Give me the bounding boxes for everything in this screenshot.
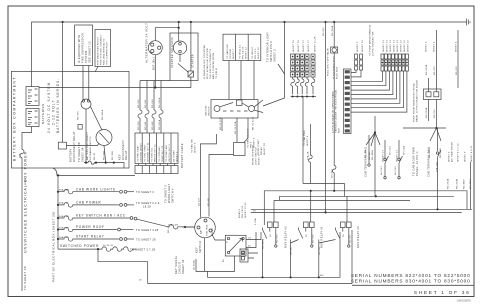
svg-text:STARTER SOLENOID: STARTER SOLENOID (170, 37, 174, 68)
svg-text:SHEET 2: SHEET 2 (259, 154, 261, 165)
label TO WD4-0 PIN C1-5 SHEET 22 (252, 46, 260, 59)
svg-text:TO PIN B.: TO PIN B. (216, 67, 218, 79)
svg-text:SWITCH PIN 9: SWITCH PIN 9 (269, 41, 273, 62)
svg-text:SHEET 4,5,7,10: SHEET 4,5,7,10 (458, 143, 460, 162)
svg-text:SHEET 1 OF 36: SHEET 1 OF 36 (414, 290, 471, 296)
svg-text:RD 30A: RD 30A (103, 151, 106, 160)
svg-text:WORK LIGHT: WORK LIGHT (167, 183, 171, 203)
svg-text:LB 107: LB 107 (198, 197, 200, 206)
label FROM START RELAY SHEET 28 (257, 139, 266, 155)
svg-text:TO ENG OIL: TO ENG OIL (152, 147, 154, 162)
wire relay right stubs (246, 232, 261, 248)
svg-text:TO FAN SW: TO FAN SW (191, 138, 194, 153)
svg-text:SWITCH: SWITCH (198, 241, 202, 253)
label KEY DISCONNECT RELAY (118, 140, 129, 160)
svg-text:UNSWITCHED ELECTRICAL BOX POWE: UNSWITCHED ELECTRICAL BOX POWER (24, 151, 28, 253)
node rail196 dot (375, 195, 377, 197)
svg-text:RD 401: RD 401 (208, 197, 210, 206)
svg-text:SHEET 6: SHEET 6 (426, 41, 428, 52)
svg-text:SHEET 34: SHEET 34 (181, 259, 185, 274)
label TO FAN SW SHEET 5 (191, 138, 197, 153)
terminal stubs cab rail (234, 143, 246, 156)
svg-text:DE START: DE START (172, 149, 175, 162)
svg-text:TO CAB ROOF PWR: TO CAB ROOF PWR (412, 147, 416, 176)
svg-text:10A-22B: 10A-22B (436, 162, 439, 172)
relay neutral start (225, 235, 246, 256)
wire alternator output down (154, 55, 156, 88)
wire breaker collector (291, 97, 316, 184)
svg-text:KEY SWITCH RUN / ACC: KEY SWITCH RUN / ACC (76, 214, 126, 218)
wire relay to switch diagonal (91, 107, 103, 131)
svg-text:SHEET 27: SHEET 27 (303, 40, 305, 52)
svg-text:LB 364A: LB 364A (193, 260, 196, 270)
label BATTERY DISCONNECT LOCKABLE SWITCH (86, 131, 92, 160)
svg-text:NH-016: NH-016 (332, 169, 334, 178)
svg-text:TO WCA-3-1: TO WCA-3-1 (239, 44, 242, 59)
wire long rail y196 (280, 195, 454, 197)
svg-text:SHEET 26: SHEET 26 (298, 40, 300, 52)
label FROM INTERIOR LIGHT SWITCH SHEET 2 (253, 145, 261, 165)
label vacuum wire tags (220, 116, 255, 134)
svg-text:BOX: BOX (339, 127, 341, 133)
svg-text:SHEET 12: SHEET 12 (404, 40, 406, 52)
label TO WCA-3-1 PIN CD-26 SHEET 22 (239, 44, 248, 59)
label KEY SWITCH (195, 241, 203, 253)
svg-text:NH-013: NH-013 (381, 166, 383, 175)
label terminal tags (94, 151, 114, 160)
vacuum switch box (211, 100, 258, 119)
svg-text:RELAY: RELAY (260, 147, 263, 155)
svg-text:SHEET 2: SHEET 2 (176, 151, 178, 162)
circuit row KEY SWITCH RUN ACC (58, 214, 195, 229)
svg-text:TO FAN SWITCH: TO FAN SWITCH (247, 128, 250, 148)
svg-text:RD 263: RD 263 (456, 66, 458, 75)
svg-text:CIRCUIT: CIRCUIT (178, 261, 182, 274)
svg-text:12 PIN BUSBAR ON UPPER FRAME: 12 PIN BUSBAR ON UPPER FRAME (332, 90, 335, 133)
svg-text:TO HYD TEMP: TO HYD TEMP (145, 145, 147, 162)
relay RUN RELAY 3 (319, 196, 352, 277)
fuse box battery relay (78, 125, 82, 130)
svg-text:BATTERIES IN SERIES.: BATTERIES IN SERIES. (56, 78, 60, 133)
label TO INTERIOR LIGHT SWITCH PIN 9 SHEET 2 (266, 32, 277, 62)
label SHEET 13 column tags (383, 40, 410, 52)
note box FOR MACHINES WITHOUT FIRE SYSTEM (95, 30, 111, 67)
svg-text:PANEL, 12 PIN C: PANEL, 12 PIN C (415, 151, 419, 176)
svg-text:BATTERY CABLE: BATTERY CABLE (180, 143, 184, 168)
svg-text:CAB WORK LIGHTS: CAB WORK LIGHTS (76, 187, 116, 191)
svg-text:TO COOLANT: TO COOLANT (158, 145, 161, 162)
wire interior light leader (278, 64, 285, 74)
pin column dots (382, 62, 408, 64)
label pin wire tags (425, 107, 436, 118)
svg-text:HARNESS UNDER THE ELECTRICAL: HARNESS UNDER THE ELECTRICAL (335, 89, 338, 133)
connector short pin columns (355, 54, 363, 70)
svg-text:10A-2B: 10A-2B (307, 151, 310, 160)
label TO CAB POWER (303, 130, 310, 160)
label RD 263 tag (456, 41, 459, 75)
svg-text:RD 41: RD 41 (168, 225, 170, 233)
switch cab rail (436, 128, 441, 209)
wire vacuum outputs down (222, 118, 248, 143)
wire right terminal exits (254, 100, 263, 113)
wire long rail y212 (251, 211, 462, 213)
label equipped note (334, 56, 339, 79)
svg-text:SEE SHEET 15: SEE SHEET 15 (88, 41, 92, 63)
svg-text:CAB TERMINAL RAIL: CAB TERMINAL RAIL (427, 146, 431, 177)
svg-text:TO CAB PWR: TO CAB PWR (303, 130, 306, 146)
svg-text:TO SHEET 28: TO SHEET 28 (136, 237, 156, 241)
svg-text:TO SHEET 3: TO SHEET 3 (136, 190, 154, 194)
svg-text:BR 31,32,B: BR 31,32,B (253, 116, 255, 130)
circuit row CAB WORK LIGHTS (58, 187, 154, 194)
label SHEET 4 (434, 41, 437, 75)
svg-text:KEY SIGNAL: KEY SIGNAL (174, 255, 178, 274)
wire key feed drops (200, 134, 233, 218)
svg-text:TO SHEET 4,28: TO SHEET 4,28 (136, 228, 159, 232)
svg-text:TO SHEET 3,7,28: TO SHEET 3,7,28 (130, 247, 156, 251)
svg-text:POWER ROOF: POWER ROOF (76, 225, 105, 229)
wire aux feed 310 (303, 124, 344, 196)
svg-text:FIRE SYSTEM, CONNECT: FIRE SYSTEM, CONNECT (101, 34, 103, 65)
wire terminal row (84, 161, 124, 168)
svg-text:SHEET 27: SHEET 27 (308, 40, 310, 52)
svg-text:SWITCHED POWER: SWITCHED POWER (60, 244, 99, 248)
svg-text:RD 502: RD 502 (319, 246, 321, 255)
svg-text:SYSTEM SHEET: SYSTEM SHEET (140, 142, 142, 162)
connector pin columns (381, 54, 408, 71)
svg-text:RD 501A: RD 501A (158, 97, 161, 108)
wire valve down (333, 53, 335, 166)
label right margin sheets (447, 141, 474, 189)
svg-text:RD 31,32D: RD 31,32D (220, 117, 222, 130)
svg-text:1084258RG: 1084258RG (457, 299, 472, 303)
wire sheet4 drop (435, 30, 437, 92)
wire battery negative to fuse (22, 127, 32, 150)
svg-text:SHEET 34: SHEET 34 (80, 147, 84, 162)
label ROOF FROM REAR ELECTRICAL (413, 79, 419, 122)
vacuum switch terminals (214, 100, 255, 112)
breaker columns (291, 54, 315, 77)
label SHEET 13 B (397, 146, 406, 162)
svg-text:SHEET 22: SHEET 22 (258, 47, 260, 59)
relay RUN RELAY 1 (291, 191, 315, 277)
svg-text:START RELAY: START RELAY (76, 235, 105, 239)
connector destination lower row (135, 164, 178, 174)
svg-text:SHEET 13: SHEET 13 (383, 40, 385, 52)
fuse drop fuses (138, 110, 163, 118)
svg-text:ROOF FROM REAR ELECTRICAL: ROOF FROM REAR ELECTRICAL (413, 82, 416, 122)
svg-text:24 VOLT DC SYSTEM: 24 VOLT DC SYSTEM (47, 82, 51, 134)
label extra wire tags (369, 151, 397, 175)
busbar 12 pin strip (344, 69, 352, 134)
wire starter return (39, 77, 191, 88)
wire fuse down (333, 173, 335, 191)
svg-text:D: D (226, 242, 228, 244)
node 212 dot (324, 211, 326, 213)
node link dot (178, 27, 180, 29)
label 12 PIN BUSBAR (332, 89, 341, 133)
svg-text:10 30 30: 10 30 30 (103, 245, 114, 247)
label TO FAN SWITCH PIN 9 SHEET 5 (247, 128, 256, 148)
wire start relay row to key area (182, 226, 195, 228)
svg-text:NH-01A: NH-01A (403, 146, 406, 155)
note box IF EQUIPPED WITH FIRE SUPPRESSION (75, 25, 93, 66)
wire solenoid plunger (178, 54, 189, 72)
svg-text:LOCKABLE SWITCH: LOCKABLE SWITCH (89, 136, 92, 160)
label breaker sheet tags (293, 36, 317, 52)
wire bus drop interior (263, 22, 285, 106)
svg-text:SYSTEM: SYSTEM (84, 51, 88, 63)
svg-text:SERIAL NUMBERS 830*4001 TO 830: SERIAL NUMBERS 830*4001 TO 830*5000 (351, 278, 471, 283)
svg-text:PANEL 12 PIN CONNECTOR BLACK: PANEL 12 PIN CONNECTOR BLACK (416, 79, 419, 122)
svg-text:RD 302: RD 302 (323, 27, 325, 36)
key switch S1 (195, 217, 216, 238)
label MCA3-1 PIN CD-50 (238, 202, 247, 218)
label TO SHEET 3 WORK LIGHT SWITCH (164, 183, 175, 203)
label TO PUMP AREA HARNESS 21 PIN CONNECTOR (369, 24, 375, 56)
wire electrical box feed (57, 175, 59, 249)
svg-text:MCA3-1: MCA3-1 (238, 208, 241, 218)
svg-text:PIN CD-26: PIN CD-26 (243, 46, 245, 59)
starter box (170, 33, 198, 81)
wire relay bottom link (196, 256, 235, 271)
svg-text:VACUUM: VACUUM (205, 105, 208, 116)
wire link to switch (66, 143, 99, 145)
label SHEET 13 A (383, 146, 392, 162)
switch battery disconnect lockable switch (96, 130, 112, 146)
svg-text:SHEET 12: SHEET 12 (401, 40, 403, 52)
svg-text:18,28: 18,28 (143, 204, 151, 208)
node rail192 dots (310, 190, 336, 192)
svg-text:THE SWITCH CONNECTS: THE SWITCH CONNECTS (210, 48, 212, 79)
starter motor contact (188, 71, 194, 77)
svg-text:0.47A: 0.47A (254, 218, 257, 225)
svg-text:SHEET 28: SHEET 28 (264, 143, 266, 155)
svg-text:RD 481F: RD 481F (464, 178, 466, 189)
label KEY SIGNAL CIRCUIT SHEET 34 (174, 255, 185, 274)
svg-text:50A: 50A (19, 153, 22, 158)
svg-text:TEMP SHT 21: TEMP SHT 21 (162, 145, 164, 162)
svg-text:THE JUMPER POST: THE JUMPER POST (107, 41, 109, 65)
svg-text:SHEET 11,28: SHEET 11,28 (315, 36, 317, 52)
wire drops to dest boxes (140, 118, 161, 133)
svg-text:RUN RELAY #2: RUN RELAY #2 (284, 226, 288, 248)
wire nested fan to busbar (351, 70, 407, 112)
svg-text:SHEET 12: SHEET 12 (408, 40, 410, 52)
node rail209 dot (436, 208, 438, 210)
svg-text:CONTROL: CONTROL (206, 223, 208, 236)
wire long rail y192 (264, 191, 467, 225)
circuit row START RELAY (58, 235, 156, 242)
label key feed tags (198, 197, 210, 206)
battery box compartment (11, 71, 129, 168)
wire switch down (104, 146, 106, 163)
svg-text:NH-015: NH-015 (395, 166, 397, 175)
svg-text:BATTERIES: BATTERIES (41, 104, 45, 125)
svg-text:BAT (B+): BAT (B+) (152, 57, 156, 70)
switch sheet13 A (384, 140, 389, 179)
svg-text:KEY: KEY (195, 247, 199, 253)
svg-text:TO WD4-0: TO WD4-0 (252, 46, 254, 59)
wire junction spread (366, 128, 441, 146)
svg-text:BAD 3 JUMPER FROM: BAD 3 JUMPER FROM (212, 53, 215, 79)
wire bus drop to disconnect link (62, 22, 64, 142)
label SHEET 6 (425, 41, 428, 75)
svg-text:LIGHT SWITCH: LIGHT SWITCH (256, 147, 258, 165)
svg-text:RD 263A: RD 263A (447, 178, 450, 189)
svg-text:SHEET 4,6,21: SHEET 4,6,21 (471, 145, 473, 162)
circuit row POWER ROOF (58, 225, 159, 232)
svg-text:RED (RD) WIRE(S) TO: RED (RD) WIRE(S) TO (104, 38, 106, 65)
svg-text:21 PIN CONNECTOR: 21 PIN CONNECTOR (373, 31, 375, 56)
svg-text:CAB TERMINAL RAIL: CAB TERMINAL RAIL (364, 146, 368, 177)
svg-text:SHEET 5: SHEET 5 (195, 142, 197, 153)
svg-text:NH-014: NH-014 (390, 146, 392, 155)
label RD 481 tags (365, 147, 442, 160)
connector MCA3-1 (240, 249, 258, 262)
svg-text:PART OF ELECTRICAL BOX (SHEET: PART OF ELECTRICAL BOX (SHEET 28) (52, 211, 56, 282)
label VACUUM SWITCH (205, 105, 211, 116)
svg-text:ALTERNATOR 24 VOLT: ALTERNATOR 24 VOLT (145, 23, 149, 63)
wire rd263 drop (457, 30, 459, 88)
label TO VACUUM SYSTEM SHEET 7 (226, 44, 235, 59)
svg-text:RD 263: RD 263 (434, 66, 436, 75)
svg-text:PIN CD-50: PIN CD-50 (242, 205, 244, 218)
svg-text:TO SHEET 3: TO SHEET 3 (164, 185, 168, 203)
alternator G1 (148, 41, 162, 55)
svg-text:RD 263A: RD 263A (425, 107, 428, 118)
circuit row CAB POWER (58, 201, 161, 209)
svg-text:SHEET 22,26: SHEET 22,26 (245, 202, 247, 218)
svg-text:RD 302A: RD 302A (331, 25, 334, 36)
svg-text:RD 31,32A: RD 31,32A (234, 121, 237, 134)
wire pins down (428, 100, 436, 129)
svg-text:PRESS SHT 21: PRESS SHT 21 (155, 144, 157, 162)
svg-text:SHEET 26: SHEET 26 (293, 40, 295, 52)
wire cab terminal rail stub (368, 135, 370, 164)
svg-text:RD 481E: RD 481E (440, 147, 442, 158)
connector vacuum destination boxes (223, 34, 261, 60)
wire rail left ends (279, 196, 281, 200)
connector rear electrical 2 pin (423, 89, 441, 100)
wire bottom rail (208, 232, 341, 277)
wire RD302A drop (333, 22, 335, 47)
wire relay coil down (85, 109, 87, 163)
svg-text:RD 487: RD 487 (369, 151, 371, 160)
node return dot (154, 86, 156, 88)
wire dest box drops (229, 61, 254, 100)
label 24 VOLT DC SYSTEM (47, 78, 60, 133)
breaker column dots (292, 56, 314, 76)
svg-text:SHEET 9: SHEET 9 (465, 151, 467, 162)
svg-text:FIRE SUPPRESSION: FIRE SUPPRESSION (81, 33, 85, 63)
node row dots (57, 191, 59, 241)
label SHEET 6 SHEET 10 (357, 40, 364, 52)
svg-text:RD 30B: RD 30B (112, 151, 114, 160)
terminal cab rail (368, 164, 370, 166)
svg-text:RD 481B: RD 481B (372, 149, 374, 160)
svg-text:RD 263A: RD 263A (425, 64, 428, 75)
relay RUN RELAY 2 (262, 200, 279, 277)
node bus junction dots (62, 21, 336, 23)
svg-text:SHEET 6: SHEET 6 (449, 151, 451, 162)
svg-text:PIN C1-5: PIN C1-5 (255, 48, 257, 59)
svg-text:RD 644: RD 644 (152, 99, 154, 108)
svg-text:IF EQUIPPED WITH: IF EQUIPPED WITH (77, 34, 81, 63)
label TO CAB ROOF POWER PANEL (412, 147, 420, 176)
svg-text:TO SHEET 28: TO SHEET 28 (23, 266, 27, 290)
svg-text:SHEET 13: SHEET 13 (397, 40, 399, 52)
svg-text:FROM INTERIOR: FROM INTERIOR (253, 145, 255, 165)
node terminal dots (85, 162, 115, 164)
wire compartment to dest box (53, 168, 136, 175)
wire far right riser (470, 162, 472, 209)
node feed junction (57, 174, 59, 176)
label drop wire tags (138, 97, 161, 130)
node bottom rail dots (261, 276, 320, 278)
svg-text:FOR MACHINES W/OUT: FOR MACHINES W/OUT (97, 36, 100, 65)
svg-text:1S: 1S (248, 238, 251, 240)
svg-text:SHEET 22: SHEET 22 (246, 47, 248, 59)
svg-text:RD: RD (320, 275, 324, 277)
svg-text:RD 506: RD 506 (313, 234, 315, 243)
svg-text:SHEET 4: SHEET 4 (307, 135, 309, 146)
node fan junction (435, 127, 437, 129)
svg-text:SHEET 13: SHEET 13 (394, 40, 396, 52)
wire sheet6 drop (427, 78, 429, 92)
svg-text:RD 300: RD 300 (78, 111, 80, 120)
circuit row SWITCHED POWER (58, 230, 352, 283)
svg-text:RUN RELAY #1: RUN RELAY #1 (320, 226, 324, 248)
battery B1 (26, 87, 39, 106)
svg-text:RD 263B: RD 263B (457, 178, 459, 189)
svg-text:RD 501A: RD 501A (158, 119, 161, 130)
svg-text:RD 505: RD 505 (277, 234, 279, 243)
svg-text:SHEET 4: SHEET 4 (434, 41, 436, 52)
svg-text:RELAY: RELAY (124, 150, 128, 160)
svg-text:RD 30: RD 30 (94, 152, 96, 160)
svg-text:RD 497A: RD 497A (262, 238, 265, 249)
svg-text:BAT: BAT (199, 229, 202, 234)
wire starter box drops (140, 81, 170, 111)
svg-text:SYSTEM: SYSTEM (230, 49, 232, 59)
svg-text:SWITCH: SWITCH (209, 106, 211, 116)
svg-text:SHEET 4: SHEET 4 (456, 41, 458, 52)
svg-text:RD 541: RD 541 (145, 99, 147, 108)
svg-text:FUEL SHUT OFF VALVE: FUEL SHUT OFF VALVE (327, 48, 330, 76)
wire 24V positive bus (32, 22, 467, 87)
svg-text:DISCONNECT RELAY: DISCONNECT RELAY (72, 131, 76, 162)
wire key to relay (212, 235, 225, 241)
svg-text:TO INTERIOR LIGHT: TO INTERIOR LIGHT (266, 32, 270, 62)
svg-text:SHEET 10: SHEET 10 (362, 40, 364, 52)
svg-text:SHEET 13: SHEET 13 (397, 150, 399, 162)
svg-text:SHEET 6: SHEET 6 (357, 41, 359, 52)
svg-text:SHEET 13: SHEET 13 (383, 150, 385, 162)
wire long rail y209 (251, 208, 472, 210)
svg-text:RD 497: RD 497 (291, 246, 293, 255)
svg-text:SHEET 2: SHEET 2 (273, 49, 277, 62)
svg-text:A/C HEAT RELAY: A/C HEAT RELAY (451, 141, 454, 162)
wire RD302 drop (325, 22, 327, 212)
svg-text:RD 509: RD 509 (138, 99, 140, 108)
note IF EQUIPPED / NOT EQUIPPED VACUUM (203, 44, 218, 79)
wire long rail y200 (274, 199, 410, 201)
switch sheet13 B (398, 140, 403, 179)
svg-text:IF MACHINE NOT EQUIPPED: IF MACHINE NOT EQUIPPED (203, 44, 206, 79)
svg-text:SHEET 13: SHEET 13 (387, 40, 389, 52)
fuel shut off valve (331, 47, 338, 53)
